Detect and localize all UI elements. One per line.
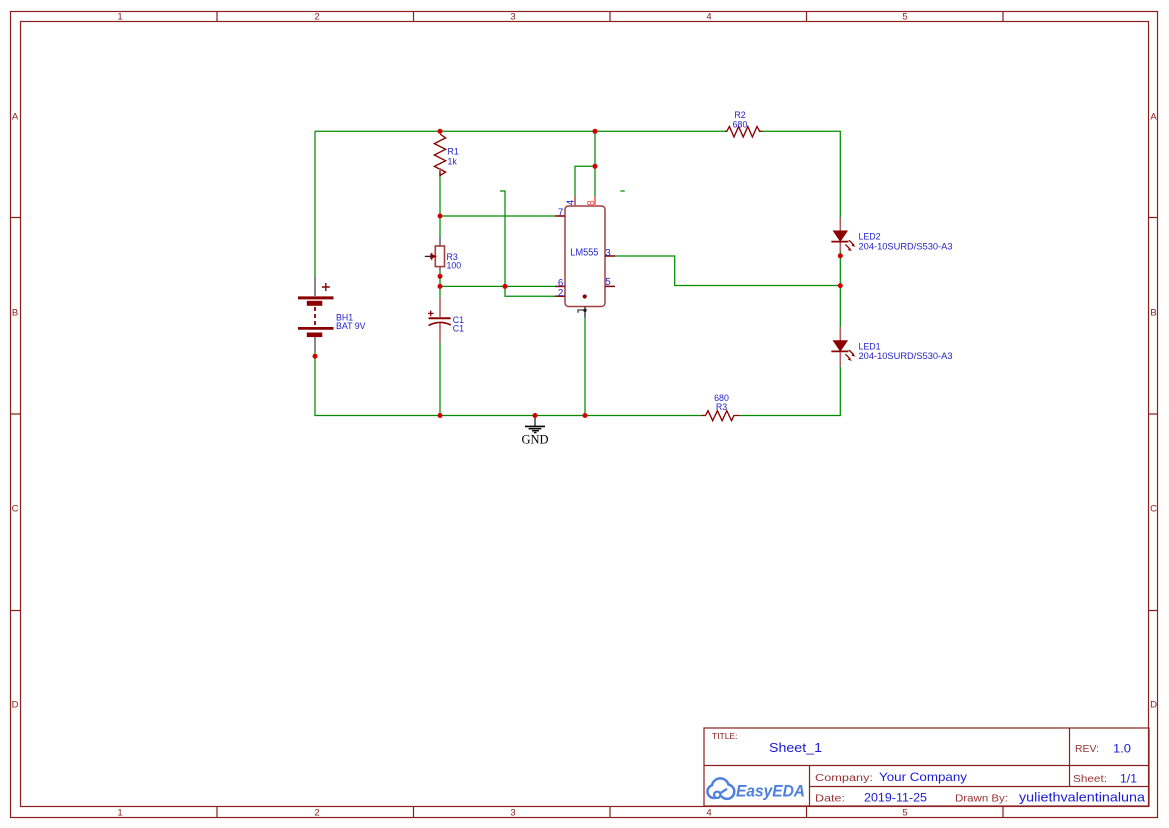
wire bottom rail right of R3 [740, 366, 841, 415]
svg-text:GND: GND [521, 433, 548, 447]
svg-text:A: A [12, 112, 19, 123]
LED1 [831, 327, 952, 366]
svg-text:Sheet:: Sheet: [1073, 773, 1107, 785]
svg-text:2: 2 [314, 808, 319, 819]
svg-text:2019-11-25: 2019-11-25 [864, 791, 927, 805]
TITLEBLOCK [704, 728, 1149, 806]
svg-text:LED2: LED2 [859, 232, 881, 242]
svg-text:1: 1 [117, 12, 122, 23]
wire floating dash [620, 190, 624, 192]
svg-text:Sheet_1: Sheet_1 [769, 741, 822, 755]
svg-text:204-10SURD/S530-A3: 204-10SURD/S530-A3 [859, 351, 953, 361]
capacitor C1 [428, 298, 464, 344]
pin 4 [566, 196, 577, 206]
svg-text:3: 3 [510, 808, 515, 819]
wire threshold vertical with hook [500, 191, 555, 296]
pin 5 [605, 277, 615, 288]
resistor R2 [725, 110, 762, 137]
svg-text:5: 5 [902, 808, 907, 819]
svg-text:BAT 9V: BAT 9V [336, 321, 366, 331]
svg-text:B: B [1150, 308, 1156, 319]
svg-text:R1: R1 [448, 147, 459, 157]
svg-text:4: 4 [706, 12, 711, 23]
junction R3 bottom [438, 274, 443, 279]
svg-text:TITLE:: TITLE: [712, 731, 738, 741]
svg-text:100: 100 [447, 260, 462, 270]
junction LED2 cathode [838, 253, 843, 258]
svg-text:R2: R2 [734, 110, 745, 120]
wire pin1 to ground rail [584, 318, 586, 416]
svg-text:1k: 1k [448, 157, 458, 167]
wire pin4 pin8 to VCC [575, 131, 595, 196]
junction output net at LED chain [838, 283, 843, 288]
pin 3 [605, 248, 615, 259]
EasyEDA logo [709, 780, 805, 801]
svg-text:7: 7 [558, 207, 563, 218]
svg-text:B: B [12, 308, 18, 319]
svg-text:A: A [1150, 112, 1157, 123]
junction at R1 top on VCC rail [438, 129, 443, 134]
pin 8 [586, 196, 597, 206]
CIRCUIT [298, 110, 953, 447]
pin 6 [555, 278, 565, 289]
svg-text:204-10SURD/S530-A3: 204-10SURD/S530-A3 [859, 241, 953, 251]
wire top rail VCC [315, 130, 726, 132]
junction C1 top pin6 [438, 284, 443, 289]
svg-text:C: C [1150, 504, 1157, 515]
svg-text:2: 2 [314, 12, 319, 23]
svg-text:Company:: Company: [815, 773, 873, 784]
resistor R3 680 bottom [701, 393, 740, 421]
svg-text:3: 3 [605, 248, 611, 259]
potentiometer R3 100 [425, 237, 461, 271]
svg-text:5: 5 [902, 12, 907, 23]
junction R1 bottom pin7 [438, 214, 443, 219]
svg-text:D: D [12, 700, 19, 711]
svg-text:3: 3 [510, 12, 515, 23]
junction battery negative [313, 354, 318, 359]
svg-text:yuliethvalentinaluna: yuliethvalentinaluna [1019, 791, 1145, 805]
svg-text:4: 4 [706, 808, 711, 819]
svg-text:8: 8 [586, 200, 597, 206]
wire left rail battery top [314, 131, 316, 277]
LED2 [831, 218, 952, 252]
resistor R1 [434, 134, 459, 175]
ground [521, 416, 548, 447]
wire C1 bottom to rail [439, 343, 441, 416]
svg-text:C: C [12, 504, 19, 515]
svg-text:D: D [1150, 700, 1157, 711]
junction at pin8 riser on VCC rail [593, 129, 598, 134]
svg-text:LED1: LED1 [859, 341, 881, 351]
svg-text:REV:: REV: [1075, 743, 1099, 755]
wire battery bottom [315, 356, 701, 415]
svg-text:Date:: Date: [815, 794, 845, 805]
junction GND flag on ground rail [533, 413, 538, 418]
svg-text:2: 2 [558, 288, 563, 299]
wire pin3 output [615, 256, 840, 286]
wire R3 bottom to C1 [439, 271, 441, 298]
pin 2 [555, 288, 565, 299]
svg-text:Drawn By:: Drawn By: [955, 794, 1008, 805]
pin 7 [555, 207, 565, 218]
battery BH1 [298, 277, 366, 356]
svg-text:C1: C1 [453, 324, 464, 334]
wire pin7 net [440, 215, 555, 217]
svg-text:EasyEDA: EasyEDA [736, 783, 805, 801]
svg-text:LM555: LM555 [570, 247, 598, 258]
svg-text:R3: R3 [716, 402, 727, 412]
svg-text:Your Company: Your Company [879, 770, 967, 784]
junction pin4/pin8 branch [593, 164, 598, 169]
svg-text:1/1: 1/1 [1120, 772, 1137, 786]
wire LED2 to LED1 [839, 252, 841, 328]
wire top rail right of R2 [763, 131, 841, 217]
IC U1 LM555 timer [565, 206, 605, 307]
junction pin6 pin2 vertical [503, 284, 508, 289]
svg-text:1: 1 [117, 808, 122, 819]
svg-text:5: 5 [605, 277, 611, 288]
svg-text:1.0: 1.0 [1113, 742, 1131, 756]
wire pin6 net [440, 285, 555, 287]
svg-text:680: 680 [733, 120, 748, 130]
pin 1 [578, 307, 587, 318]
svg-text:4: 4 [566, 199, 577, 205]
junction pin1 on ground rail [583, 413, 588, 418]
wire R1 to node [439, 172, 441, 237]
junction C1 bottom on ground rail [438, 413, 443, 418]
